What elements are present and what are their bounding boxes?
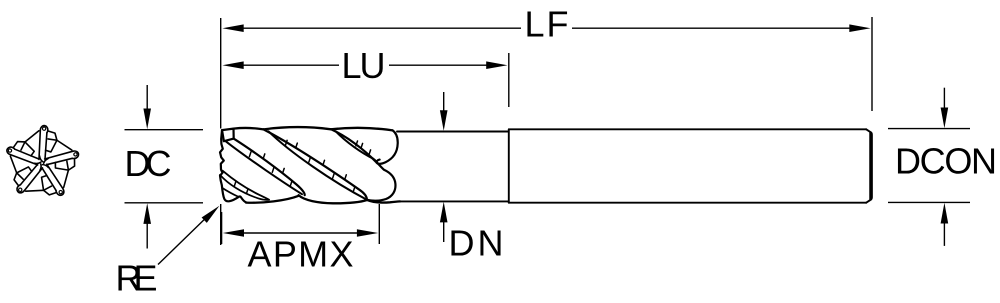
svg-text:APMX: APMX xyxy=(248,233,354,274)
svg-text:LF: LF xyxy=(525,4,569,45)
svg-text:DC: DC xyxy=(125,143,172,184)
svg-text:LU: LU xyxy=(342,45,386,86)
svg-text:DCON: DCON xyxy=(895,141,997,182)
svg-text:RE: RE xyxy=(116,257,158,298)
